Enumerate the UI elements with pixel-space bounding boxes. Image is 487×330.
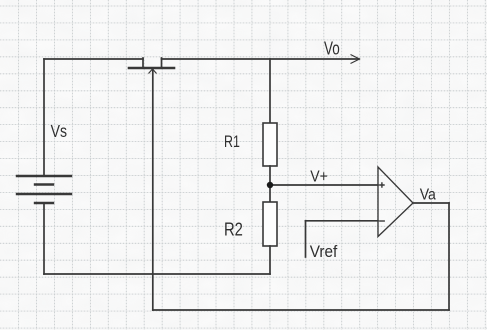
svg-text:Vs: Vs [51, 121, 67, 141]
node V+ junction dot [267, 182, 273, 188]
battery Vs short plate 1 [35, 183, 53, 185]
wire: battery top vertical [43, 59, 45, 176]
transistor Q1 source drop [161, 58, 163, 68]
wire: bottom horizontal gate to Va [153, 309, 449, 311]
svg-text:Vref: Vref [310, 244, 338, 262]
transistor Q1 channel bar [129, 67, 174, 70]
battery Vs long plate 1 [17, 175, 71, 177]
transistor Q1 gate line [152, 69, 154, 310]
wire: V+ horizontal [270, 184, 378, 186]
transistor Q1 gate arrow [149, 69, 157, 74]
op-amp plus sign [380, 183, 384, 187]
wire: R2 bottom drop [269, 246, 271, 274]
Vo arrowhead [351, 55, 360, 64]
wire: R1 to node [269, 166, 271, 185]
wire: node to R2 [269, 185, 271, 202]
battery Vs short plate 2 [35, 202, 53, 204]
wire: Va down vertical [448, 203, 450, 310]
wire: top right horizontal to Vo [162, 58, 360, 60]
svg-text:R2: R2 [224, 219, 243, 240]
resistor R1 [263, 123, 277, 166]
wire: Vref vertical [305, 221, 307, 257]
wire: bottom left horizontal [44, 273, 270, 275]
svg-text:Vo: Vo [324, 39, 340, 60]
svg-text:V+: V+ [310, 168, 328, 186]
op-amp minus sign [380, 220, 384, 222]
wire: top left horizontal [44, 58, 143, 60]
transistor Q1 drain drop [142, 58, 144, 68]
battery Vs long plate 2 [17, 193, 71, 195]
op-amp U1 triangle [378, 167, 413, 237]
wire: Vref horizontal to op-amp minus [306, 220, 379, 222]
svg-text:Va: Va [420, 185, 437, 203]
wire: op-amp output [413, 202, 449, 204]
wire: R1 top drop [269, 59, 271, 123]
wire: battery bottom vertical [43, 203, 45, 274]
resistor R2 [263, 202, 277, 246]
svg-text:R1: R1 [224, 133, 240, 151]
